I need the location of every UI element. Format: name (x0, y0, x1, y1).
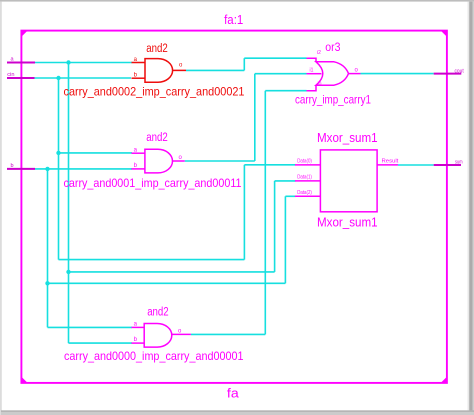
svg-text:carry_and0002_imp_carry_and000: carry_and0002_imp_carry_and00021 (64, 85, 245, 99)
svg-text:carry_and0000_imp_carry_and000: carry_and0000_imp_carry_and00001 (64, 349, 244, 363)
svg-text:Data(1): Data(1) (297, 174, 312, 180)
svg-text:sum: sum (455, 159, 463, 165)
svg-text:or3: or3 (325, 42, 340, 54)
svg-text:fa: fa (227, 385, 240, 400)
svg-text:fa:1: fa:1 (224, 12, 243, 27)
svg-text:i2: i2 (317, 50, 321, 56)
svg-text:Data(2): Data(2) (297, 190, 312, 196)
svg-text:cin: cin (7, 72, 14, 78)
svg-text:Data(0): Data(0) (297, 158, 312, 164)
svg-text:carry_imp_carry1: carry_imp_carry1 (295, 92, 371, 106)
svg-text:i0: i0 (318, 82, 322, 88)
svg-text:and2: and2 (146, 132, 168, 144)
svg-text:b: b (11, 163, 14, 169)
svg-text:Result: Result (382, 158, 400, 164)
svg-text:carry_and0001_imp_carry_and000: carry_and0001_imp_carry_and00011 (64, 176, 242, 190)
svg-text:and2: and2 (146, 43, 168, 55)
svg-text:i1: i1 (310, 67, 314, 73)
svg-text:Mxor_sum1: Mxor_sum1 (317, 216, 378, 230)
svg-text:and2: and2 (147, 307, 169, 319)
svg-text:cout: cout (455, 68, 465, 74)
svg-text:Mxor_sum1: Mxor_sum1 (317, 131, 378, 145)
